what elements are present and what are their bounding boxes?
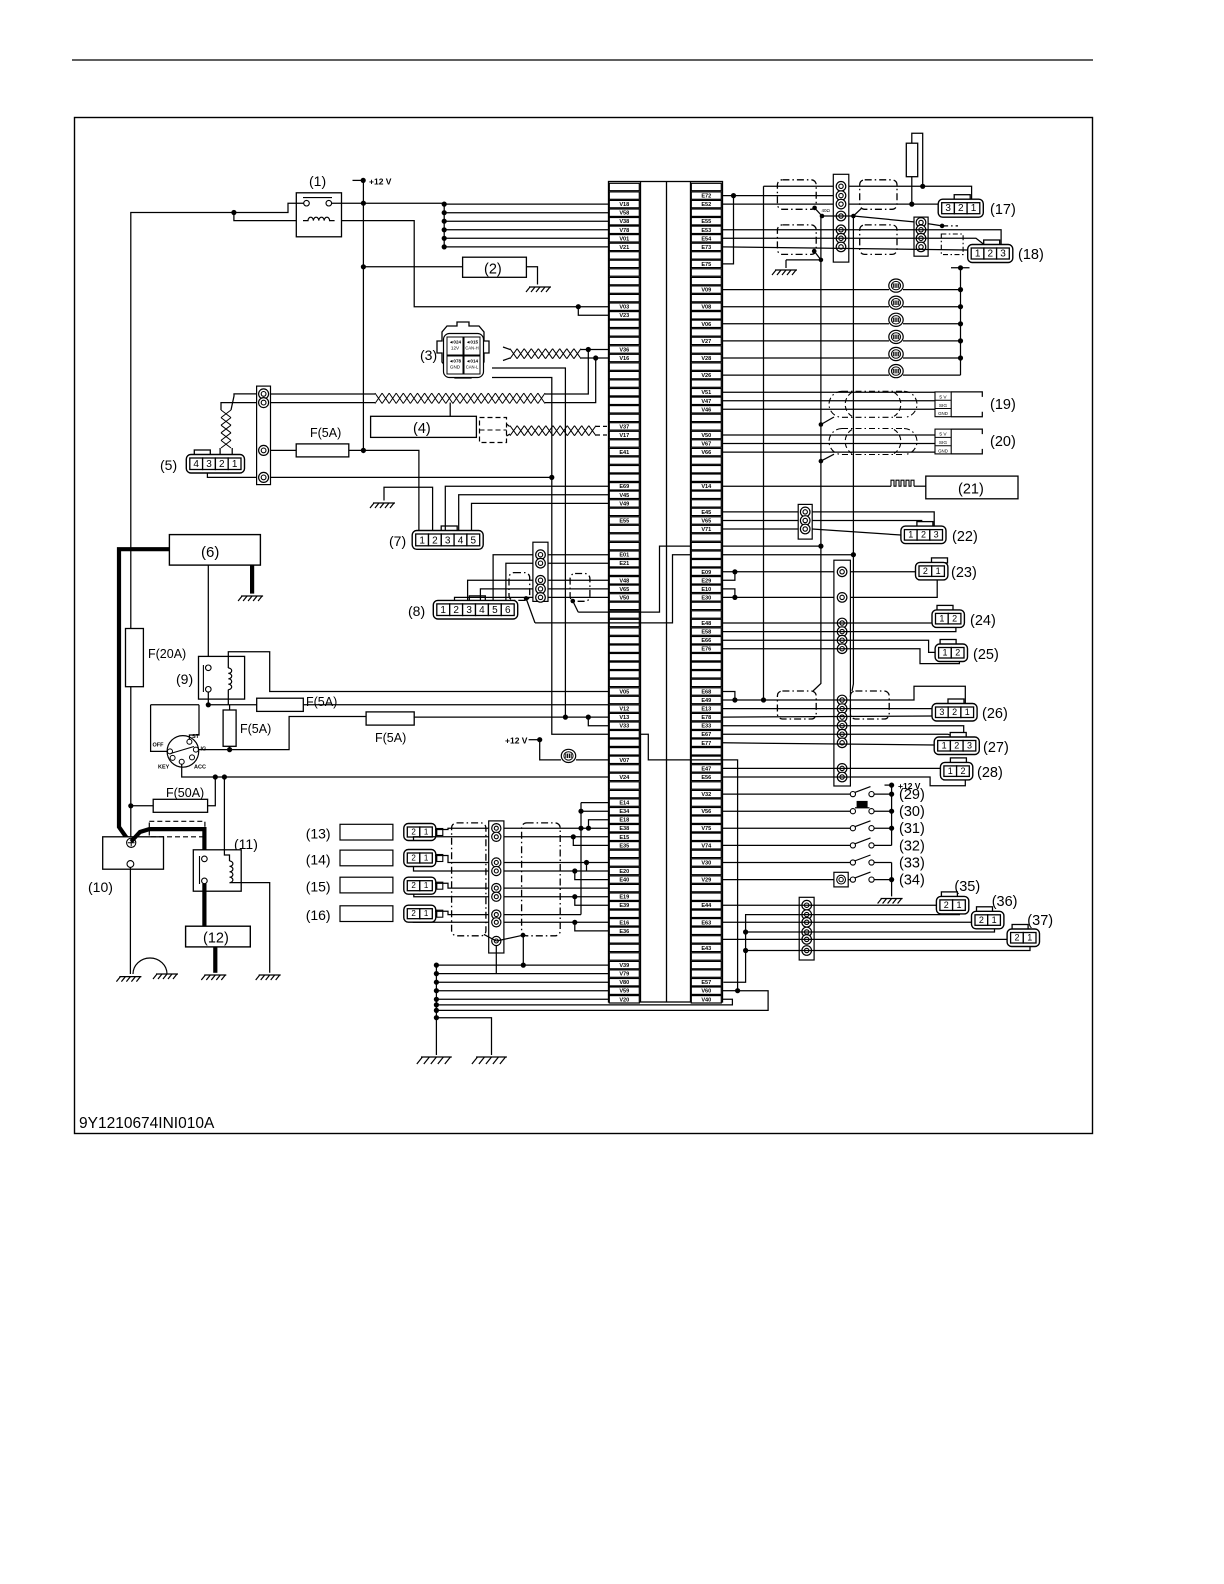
ground link E72-E75	[723, 196, 734, 264]
switch (32)	[850, 843, 855, 848]
svg-text:1: 1	[936, 566, 941, 576]
junction V39 shield	[521, 963, 526, 968]
junction 12V feed for (3)	[563, 715, 568, 720]
vert s8 to E36	[575, 922, 609, 931]
connector (3) body	[437, 322, 489, 378]
glow bus feed bar	[951, 267, 970, 269]
junction bus1	[434, 1002, 439, 1007]
connector (37)	[1007, 913, 1053, 947]
wire s2 to E15	[504, 836, 609, 838]
wire (16)-2	[413, 921, 488, 923]
bottom bus2 V60	[436, 991, 768, 1011]
fuse F(5A) vertical box	[223, 710, 236, 746]
svg-text:E33: E33	[701, 724, 711, 730]
svg-text:E56: E56	[701, 775, 711, 781]
svg-text:V56: V56	[701, 809, 711, 815]
junction IG wire	[227, 747, 232, 752]
wire strip8 E21	[548, 562, 609, 564]
wire coil to (21)	[914, 485, 926, 487]
crossover vert E14 bundle	[581, 802, 609, 804]
wire ST to B route	[189, 705, 199, 740]
svg-text:4: 4	[458, 535, 464, 546]
junction GND tap	[549, 475, 554, 480]
svg-text:E30: E30	[701, 595, 711, 601]
ground frame	[153, 974, 178, 979]
wire (9) bottom contact	[207, 692, 209, 705]
svg-text:2: 2	[958, 203, 964, 214]
svg-text:E76: E76	[701, 647, 711, 653]
junction row43	[851, 552, 856, 557]
connector (7)	[412, 526, 483, 549]
svg-text:E66: E66	[701, 638, 711, 644]
strip (22)	[798, 504, 812, 539]
junction E34	[578, 809, 583, 814]
wire glow to V07	[576, 759, 609, 761]
svg-text:V27: V27	[701, 339, 711, 345]
glow plug row 20 wire left	[723, 357, 890, 359]
svg-text:◄014: ◄014	[466, 359, 479, 364]
svg-text:V58: V58	[619, 211, 629, 217]
(34) inline connector	[834, 872, 848, 887]
wire E48 to (24)	[723, 622, 933, 624]
junction V03/V23 branch	[576, 304, 581, 309]
svg-text:3: 3	[206, 459, 212, 470]
wire branch to V33	[588, 717, 608, 726]
svg-text:E72: E72	[701, 194, 711, 200]
svg-text:E18: E18	[619, 818, 629, 824]
connector (36)	[972, 894, 1018, 929]
svg-text:2: 2	[921, 530, 926, 540]
key switch terminals	[187, 739, 192, 744]
wire E52 to (17)	[723, 199, 955, 204]
connector (35)	[936, 879, 980, 914]
wire key ACC to V24	[182, 764, 609, 777]
svg-text:1: 1	[440, 605, 446, 616]
svg-text:1: 1	[992, 915, 997, 925]
battery minus terminal	[127, 861, 134, 868]
svg-text:+12 V: +12 V	[505, 736, 528, 746]
junction s1-a	[578, 826, 583, 831]
strip (8)	[533, 542, 548, 601]
svg-text:(2): (2)	[484, 262, 502, 278]
svg-text:2: 2	[979, 915, 984, 925]
svg-text:V06: V06	[701, 322, 711, 328]
svg-text:E44: E44	[701, 903, 712, 909]
svg-text:E63: E63	[701, 920, 711, 926]
switch (31) wire	[723, 827, 851, 829]
relay (1) box	[296, 193, 341, 237]
svg-text:V38: V38	[619, 219, 629, 225]
wire E53 to (18)	[723, 230, 1002, 245]
junction row42	[818, 544, 823, 549]
svg-text:E54: E54	[701, 236, 712, 242]
svg-text:E29: E29	[701, 578, 711, 584]
svg-text:V60: V60	[701, 989, 711, 995]
relay (11) contacts	[199, 856, 201, 884]
junction +12V at fuse wire	[361, 448, 366, 453]
junction E49 bus	[732, 697, 737, 702]
wire fuse2 to V13	[414, 716, 608, 719]
diag CAN twisted pair	[375, 393, 545, 403]
junction fanout row 3	[442, 210, 447, 215]
svg-text:E55: E55	[701, 219, 711, 225]
(36) return	[746, 929, 995, 933]
connector (18)	[968, 240, 1044, 263]
wire E73 to (18)	[723, 247, 968, 250]
glow plug symbol 2	[889, 296, 903, 309]
switch (30)	[850, 809, 855, 814]
svg-text:E20: E20	[619, 869, 629, 875]
svg-text:KEY: KEY	[158, 765, 170, 771]
ground2 branch	[436, 1018, 491, 1055]
switch (29) wire	[723, 793, 851, 795]
wire relay coil right to V03	[342, 221, 609, 307]
relay (11) coil	[230, 861, 233, 883]
ECU connector outline	[609, 182, 723, 1003]
svg-text:(20): (20)	[990, 434, 1016, 450]
svg-text:3: 3	[967, 741, 972, 751]
small dashed box 18	[941, 234, 963, 255]
svg-text:3: 3	[466, 605, 472, 616]
wire V14 to coil	[723, 485, 892, 487]
svg-text:V16: V16	[619, 356, 629, 362]
strip3 bottom right	[799, 897, 814, 960]
svg-text:40Ω: 40Ω	[822, 208, 831, 213]
svg-text:V23: V23	[619, 313, 629, 319]
ECU pin cells both columns	[609, 183, 639, 190]
svg-text:2: 2	[411, 828, 416, 837]
wire (15)-1	[435, 883, 489, 888]
svg-text:V07: V07	[619, 758, 629, 764]
relay (9) contacts	[202, 665, 204, 692]
glow plug symbol 4	[889, 330, 903, 343]
wire to pin row 2	[444, 203, 608, 205]
wire Vfuse bottom to IG	[229, 746, 231, 749]
svg-text:(16): (16)	[306, 907, 331, 923]
fuse F(5A) top box	[296, 444, 349, 457]
glow plug symbol V07	[561, 749, 575, 762]
svg-text:2: 2	[219, 459, 225, 470]
key switch wiper	[171, 747, 195, 754]
junction glow bus 14	[958, 304, 963, 309]
svg-text:V24: V24	[619, 775, 630, 781]
wire s6 to E19	[504, 896, 609, 898]
switch (34)	[850, 877, 855, 882]
drain (19)	[821, 417, 834, 425]
junction V33 branch	[586, 715, 591, 720]
wire to pin row 3	[444, 212, 608, 214]
svg-text:V05: V05	[619, 690, 629, 696]
shield bus 2	[852, 216, 854, 555]
svg-text:F(5A): F(5A)	[240, 722, 271, 736]
glow plug symbol 6	[889, 365, 903, 378]
junction s3	[584, 860, 589, 865]
svg-text:V26: V26	[701, 373, 711, 379]
svg-text:V08: V08	[701, 305, 711, 311]
svg-text:9Y1210674INI010A: 9Y1210674INI010A	[79, 1115, 215, 1132]
wire to pin row 7	[444, 246, 608, 248]
wire E29 step	[723, 572, 735, 581]
shield drain (8) right	[571, 599, 576, 604]
battery plus terminal	[127, 838, 136, 847]
junction fanout row 7	[442, 244, 447, 249]
junction shield right	[521, 933, 526, 938]
thick cable battery to (11)	[131, 829, 204, 852]
wire E33 to (27)3	[723, 726, 964, 737]
resistor top loop	[912, 133, 923, 186]
crossover vert E18	[589, 820, 609, 829]
junction s2	[571, 834, 576, 839]
connector (26)	[932, 699, 1008, 722]
wire E30 to (23)	[723, 579, 938, 598]
svg-text:V65: V65	[619, 587, 629, 593]
battery feed wire lower	[130, 687, 132, 837]
wire row42 to shield bus1	[723, 545, 821, 547]
svg-text:E75: E75	[701, 262, 711, 268]
wire (6) to relay (9)	[207, 565, 209, 664]
connector (25)	[935, 640, 999, 664]
shield box 17a	[777, 180, 816, 210]
svg-text:(35): (35)	[954, 879, 980, 895]
wire s3 to blank row	[504, 862, 609, 864]
frame arc	[133, 958, 167, 974]
junction +12V on relay output	[361, 201, 366, 206]
connector strip 18	[914, 217, 928, 256]
svg-text:1: 1	[419, 535, 425, 546]
drain diag 17b	[853, 208, 861, 216]
svg-text:1: 1	[424, 909, 429, 918]
svg-text:V78: V78	[619, 228, 629, 234]
svg-text:1: 1	[908, 530, 913, 540]
drain 26b	[852, 555, 853, 691]
svg-text:E01: E01	[619, 553, 629, 559]
svg-text:(32): (32)	[899, 838, 925, 854]
svg-text:3: 3	[445, 535, 451, 546]
svg-text:SIG: SIG	[939, 403, 948, 409]
svg-text:E55: E55	[619, 519, 629, 525]
svg-text:E16: E16	[619, 920, 629, 926]
wire (3) 12V pin	[492, 368, 565, 717]
glow plug row 16 wire left	[723, 323, 890, 325]
wire (2) to ground	[526, 267, 537, 285]
svg-text:E38: E38	[619, 826, 629, 832]
junction drain 19	[819, 422, 824, 427]
svg-text:E69: E69	[619, 484, 629, 490]
vert s4 to E40	[575, 871, 609, 880]
svg-text:E34: E34	[619, 809, 630, 815]
svg-text:SIG: SIG	[939, 440, 948, 446]
dashed box battery cable	[149, 821, 205, 837]
wire s1 to E38	[504, 827, 609, 829]
svg-text:(29): (29)	[899, 787, 925, 803]
shield box 18b	[860, 225, 897, 255]
wire E43 to (37)	[723, 938, 1008, 940]
ground bus vertical	[435, 965, 437, 1055]
svg-text:GND: GND	[938, 411, 948, 416]
(37) return	[746, 946, 1030, 950]
junction sw bus 34	[889, 877, 894, 882]
shield box (8) left	[509, 573, 530, 601]
wire E44 to (35)	[723, 904, 937, 906]
+12V symbol switches	[885, 784, 892, 786]
junction +12V at (2)	[361, 264, 366, 269]
drain 26a	[813, 546, 821, 691]
switch (33) right wire	[874, 862, 892, 864]
relay (1) contacts	[303, 197, 332, 199]
svg-text:(24): (24)	[970, 613, 996, 629]
svg-text:(6): (6)	[201, 544, 219, 561]
svg-text:(30): (30)	[899, 804, 925, 820]
shield drain to V39	[522, 935, 524, 965]
junction fanout row 2	[442, 202, 447, 207]
bottom bus1 V40	[436, 999, 732, 1005]
svg-text:V37: V37	[619, 424, 629, 430]
vert s6 to E39	[575, 897, 609, 906]
junction V60	[735, 988, 740, 993]
wire (14)-2	[414, 867, 489, 872]
ground main left	[417, 1057, 452, 1064]
svg-text:V12: V12	[619, 707, 629, 713]
svg-text:1: 1	[956, 900, 961, 910]
glow bus vertical	[960, 268, 962, 375]
ground for (11)	[256, 975, 281, 980]
svg-text:(15): (15)	[306, 879, 331, 895]
svg-text:3: 3	[1000, 249, 1006, 260]
dashed box at (4)	[480, 418, 507, 443]
(21) coil symbol	[891, 480, 914, 486]
wire strip c3 to fuse	[271, 449, 297, 451]
junction glow bus 12	[958, 287, 963, 292]
svg-text:1: 1	[965, 707, 970, 717]
svg-text:E52: E52	[701, 202, 711, 208]
junction bus2	[434, 1008, 439, 1013]
svg-text:(13): (13)	[306, 826, 331, 842]
shield box 26a	[777, 691, 816, 719]
svg-text:V21: V21	[619, 245, 629, 251]
shield drain (8) left	[524, 596, 529, 601]
svg-text:2: 2	[411, 881, 416, 890]
junction 36 return	[743, 929, 748, 934]
wire V60 out	[723, 990, 738, 992]
svg-text:(22): (22)	[952, 529, 978, 545]
svg-text:V46: V46	[701, 407, 711, 413]
wire strip8 V48	[548, 579, 609, 581]
svg-text:(12): (12)	[203, 931, 229, 947]
svg-text:OFF: OFF	[153, 743, 165, 749]
junction s4	[572, 868, 577, 873]
svg-text:V71: V71	[701, 527, 711, 533]
svg-text:V59: V59	[619, 989, 629, 995]
switch (33) wire	[723, 862, 851, 864]
svg-text:(26): (26)	[982, 706, 1008, 722]
connector (27)	[934, 733, 1009, 757]
connector (24)	[932, 605, 996, 629]
fuse F(5A)2 box	[366, 712, 414, 725]
relay (1) coil	[303, 217, 335, 220]
glow plug row 16 wire right	[903, 323, 961, 325]
wire (13)-2	[414, 837, 489, 841]
svg-text:(28): (28)	[977, 765, 1003, 781]
shield drain left diag	[484, 934, 496, 941]
wire (8) pin2 to V50 row	[455, 597, 533, 600]
junction drain strip2	[940, 224, 945, 229]
svg-text:1: 1	[424, 881, 429, 890]
wire row43 to shield bus2	[723, 554, 854, 556]
svg-text:CAN-H: CAN-H	[465, 346, 478, 351]
fuse F(50A) box	[153, 799, 207, 812]
svg-text:(31): (31)	[899, 821, 925, 837]
junction relay coil-left	[231, 210, 236, 215]
wire to pin row 5	[444, 229, 608, 231]
wire E09 to (23)	[723, 571, 916, 573]
glow plug symbol 5	[889, 347, 903, 360]
svg-text:V47: V47	[701, 399, 711, 405]
wire A to (17) pin1	[764, 186, 972, 199]
fuse F(20A) box	[126, 629, 144, 687]
glow plug row 22 wire left	[723, 374, 890, 376]
connector (17)	[938, 195, 1016, 218]
svg-text:E58: E58	[701, 630, 711, 636]
resistor bottom	[911, 177, 913, 204]
wire (11) coil bottom to ground	[230, 883, 270, 973]
switch (32) wire	[723, 844, 851, 846]
ground bus link	[786, 259, 821, 261]
connector strip right top	[833, 174, 849, 262]
junction bus V20	[434, 997, 439, 1002]
svg-text:+12 V: +12 V	[369, 177, 392, 187]
diag CAN pair wires	[271, 393, 375, 395]
drain dot box17a	[812, 206, 817, 211]
svg-text:2: 2	[944, 900, 949, 910]
svg-text:V32: V32	[701, 792, 711, 798]
ground for (7)	[370, 503, 395, 508]
ground for (6)	[238, 596, 263, 601]
junction bus top E72	[731, 193, 736, 198]
glow plug row 22 wire right	[903, 374, 961, 376]
shield box 17b	[860, 180, 897, 210]
svg-text:6: 6	[505, 605, 511, 616]
svg-text:E10: E10	[701, 587, 711, 593]
junction glow bus 16	[958, 321, 963, 326]
svg-text:◄024: ◄024	[449, 340, 462, 345]
junction wireA feed	[761, 697, 766, 702]
junction (9) output	[206, 702, 211, 707]
svg-text:1: 1	[942, 741, 947, 751]
wire IG to long feed	[198, 717, 366, 750]
svg-text:2: 2	[960, 766, 965, 776]
switch (34) wire	[723, 879, 851, 881]
wire (16)-1	[435, 911, 489, 914]
junction resistor top	[920, 184, 925, 189]
svg-text:V17: V17	[619, 433, 629, 439]
wire E72	[723, 195, 839, 197]
svg-text:(19): (19)	[990, 397, 1016, 413]
drain dot box18a	[812, 249, 817, 254]
svg-text:V13: V13	[619, 715, 629, 721]
glow plug row 12 wire left	[723, 289, 890, 291]
connector (28)	[940, 758, 1002, 781]
svg-text:E39: E39	[619, 903, 629, 909]
svg-text:E15: E15	[619, 835, 629, 841]
drain diag to strip2	[853, 216, 942, 226]
svg-text:1: 1	[424, 854, 429, 863]
shield box (8) right	[570, 574, 590, 602]
wire branch to V23	[578, 307, 608, 316]
wire (8) pin5 to E01 row	[493, 555, 533, 601]
wire relay(1) left contact to battery feed	[131, 203, 304, 628]
wire (3) GND pin	[492, 378, 609, 735]
fuse F(5A)1 box	[257, 698, 304, 711]
